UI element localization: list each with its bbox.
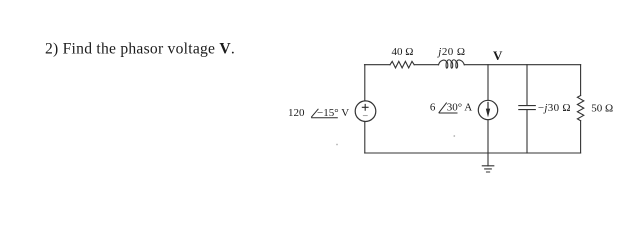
voltage source VS circle 120/-15V xyxy=(355,101,376,122)
wire top-left segment xyxy=(365,64,391,66)
angle symbol for current source xyxy=(439,103,458,113)
scan speck right xyxy=(453,135,455,137)
wire between resistor and inductor xyxy=(414,64,438,66)
svg-text:−15°: −15° xyxy=(317,107,339,119)
ground stem xyxy=(487,153,489,166)
svg-text:120: 120 xyxy=(288,107,305,119)
voltage source minus sign xyxy=(363,115,368,117)
svg-text:50 Ω: 50 Ω xyxy=(591,102,613,114)
ground bars xyxy=(482,166,494,172)
wire bottom xyxy=(365,152,581,154)
wire left branch upper xyxy=(364,65,366,101)
wire capacitor branch upper xyxy=(526,65,528,106)
capacitor C -j30ohm plates xyxy=(519,106,536,110)
resistor R 40ohm xyxy=(390,61,414,68)
angle symbol for source voltage xyxy=(311,109,338,118)
wire right branch upper xyxy=(580,65,582,96)
wire left branch lower xyxy=(364,122,366,153)
svg-text:2) Find the phasor voltage V.: 2) Find the phasor voltage V. xyxy=(45,40,235,57)
svg-text:V: V xyxy=(493,48,503,63)
svg-text:j20 Ω: j20 Ω xyxy=(436,46,465,58)
current source IS circle 6/30A xyxy=(478,100,497,119)
voltage source plus sign xyxy=(362,104,369,111)
svg-text:V: V xyxy=(341,107,349,119)
wire top-right segment xyxy=(464,64,580,66)
wire current-source branch lower xyxy=(487,120,489,153)
svg-text:30°: 30° xyxy=(447,102,462,114)
inductor L j20ohm xyxy=(439,60,465,68)
wire right branch lower xyxy=(580,121,582,153)
wire current-source branch upper xyxy=(487,65,489,101)
scan speck left xyxy=(336,144,338,146)
wire capacitor branch lower xyxy=(526,110,528,153)
svg-text:6: 6 xyxy=(430,102,436,114)
svg-text:A: A xyxy=(464,102,472,114)
svg-text:−j30 Ω: −j30 Ω xyxy=(538,102,571,114)
svg-text:40 Ω: 40 Ω xyxy=(392,46,414,58)
current source arrow xyxy=(486,102,490,118)
resistor R 50ohm vertical xyxy=(577,96,583,121)
